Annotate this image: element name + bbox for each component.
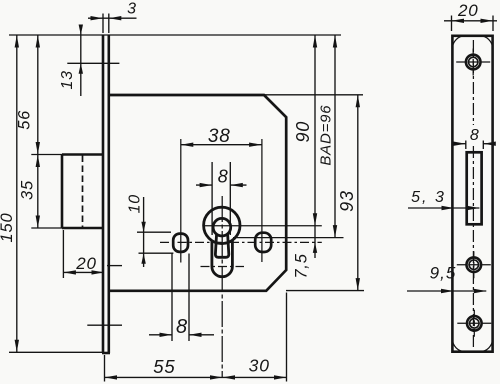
svg-text:5, 3: 5, 3: [411, 189, 446, 206]
screw hole tick top (front view): [67, 62, 119, 64]
faceplate screw hole middle: [457, 251, 491, 278]
svg-text:8: 8: [176, 316, 188, 338]
extension line: backplate top level: [9, 34, 341, 36]
stem bottom horizontal centerline: [201, 266, 245, 268]
svg-text:56: 56: [16, 110, 34, 130]
screw hole tick middle (front view): [107, 265, 122, 267]
hidden edge (dashed) in left block: [82, 156, 84, 228]
keyhole vertical centerline: [221, 196, 223, 378]
faceplate vertical centerline: [472, 40, 474, 125]
extension: case bottom level right: [286, 290, 364, 292]
side hole right: [255, 233, 271, 252]
dimension 3 (backplate thickness): [88, 14, 137, 34]
extension line: block top to dim: [31, 154, 62, 156]
svg-text:20: 20: [75, 254, 97, 273]
lock case outline: [109, 95, 286, 291]
svg-text:93: 93: [337, 190, 357, 212]
dimension 150 line: [16, 35, 18, 352]
extension: keyhole center level right: [204, 225, 322, 227]
keyhole outer stem: [212, 241, 233, 277]
keyhole inner circle: [213, 218, 231, 236]
faceplate corner arcs: [452, 36, 492, 352]
svg-text:3: 3: [127, 1, 137, 18]
extension: case top level right: [264, 94, 363, 96]
dimension 20 (faceplate width): [444, 16, 497, 32]
dimension 38 (hole spacing): [181, 144, 262, 146]
backplate (front view, 3mm strip): [102, 35, 110, 353]
left block (lock follower housing): [62, 155, 103, 229]
svg-text:BAD=96: BAD=96: [318, 105, 335, 166]
svg-text:8: 8: [218, 167, 229, 187]
faceplate slot: [467, 152, 482, 224]
screw hole tick bottom (front view): [87, 324, 122, 326]
dimension 90 / 7,5 shared line: [314, 35, 316, 258]
hole centerline right vertical: [261, 139, 263, 262]
svg-text:20: 20: [457, 1, 479, 20]
extension line: block bottom to dim: [31, 227, 62, 229]
keyhole inner slot: [215, 234, 228, 258]
svg-text:10: 10: [127, 194, 144, 213]
hole horizontal centerline: [160, 241, 322, 243]
svg-text:35: 35: [19, 180, 37, 200]
leader 9,5: [407, 290, 486, 292]
extension: stem shoulder level right: [233, 237, 344, 239]
dimension 56 / 35 shared line: [37, 35, 39, 228]
dimension 13 (top screw hole offset): [80, 25, 82, 96]
dimension 20 (block width): [62, 230, 64, 278]
svg-text:8: 8: [470, 127, 480, 144]
dimension 8 (keyhole circle width, top): [196, 162, 247, 235]
keyhole outer circle (cylinder hole): [204, 207, 240, 243]
dimension BAD=96 line: [334, 35, 336, 238]
leader 5,3: [408, 207, 479, 209]
svg-text:9,5: 9,5: [430, 264, 457, 283]
svg-text:90: 90: [293, 121, 313, 143]
dimension 93 line: [357, 95, 359, 291]
dimension 55 / 30 bottom chain: [105, 293, 287, 382]
svg-text:7,5: 7,5: [293, 253, 311, 278]
dimension 8 (left hole width, bottom): [149, 254, 214, 342]
faceplate screw hole top: [456, 49, 490, 76]
svg-text:30: 30: [249, 356, 270, 376]
dimension 10 (side hole height): [137, 197, 173, 267]
faceplate screw hole bottom: [457, 310, 491, 337]
extension line: backplate bottom level (left): [9, 351, 104, 353]
svg-text:13: 13: [59, 70, 76, 89]
hole centerline left vertical: [180, 139, 182, 263]
svg-text:55: 55: [153, 356, 175, 377]
dimension 8 (slot width): [455, 141, 494, 150]
svg-text:150: 150: [0, 213, 16, 243]
faceplate outline (side view): [452, 36, 492, 352]
side hole left: [173, 234, 188, 252]
svg-text:38: 38: [208, 126, 231, 147]
